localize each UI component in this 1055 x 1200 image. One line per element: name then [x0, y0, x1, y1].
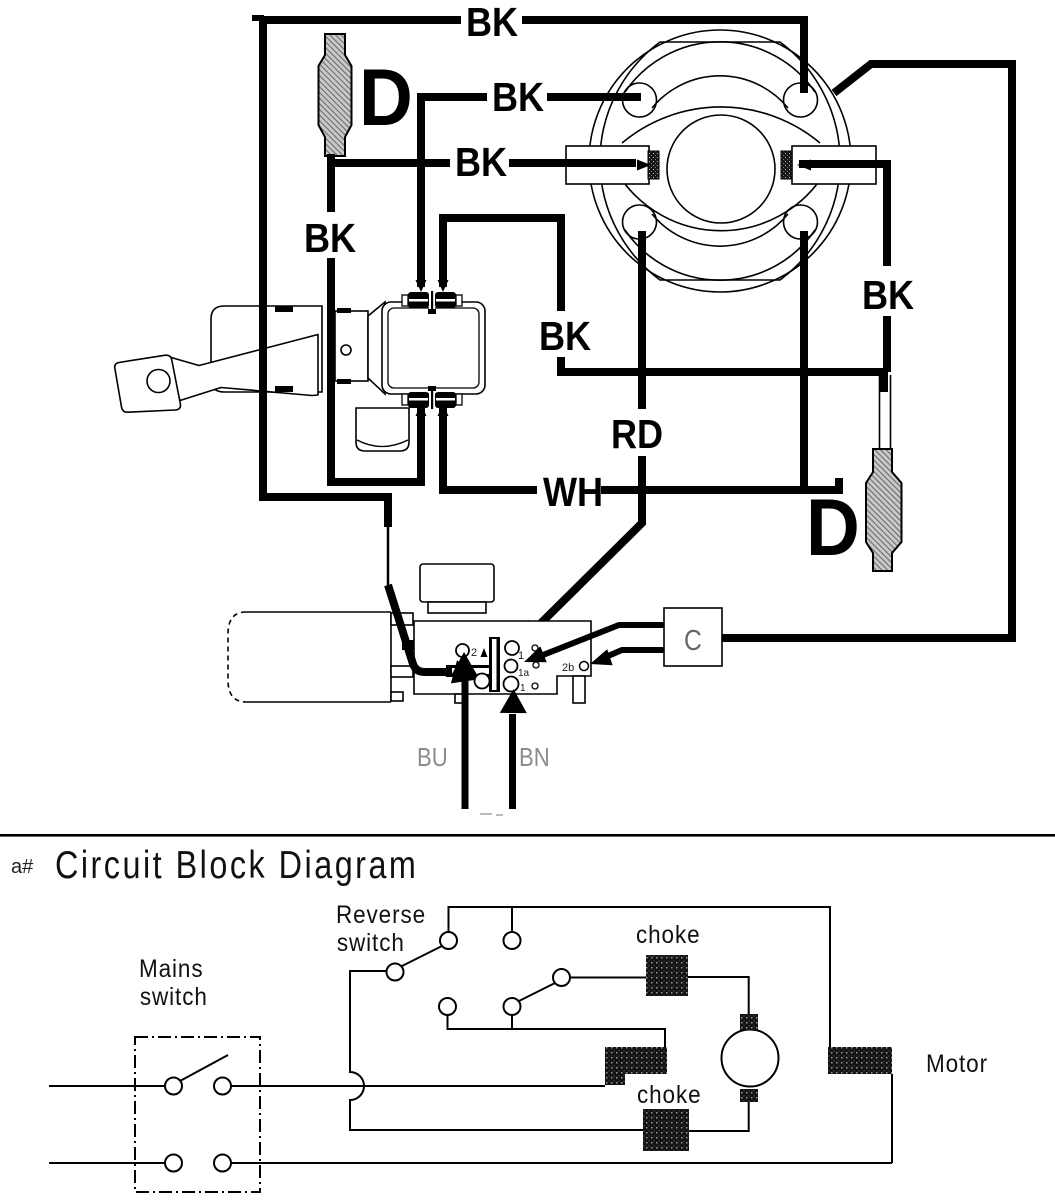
svg-text:Mainsswitch: Mainsswitch — [139, 955, 208, 1011]
svg-text:RD: RD — [611, 412, 663, 458]
svg-text:choke: choke — [636, 921, 701, 949]
trigger top terminal side tabs — [402, 295, 462, 306]
block motor armature — [722, 1030, 779, 1087]
trigger bottom cylinder — [356, 408, 409, 451]
trigger plate hole — [341, 345, 351, 355]
reverse switch contact circles — [387, 932, 571, 1015]
reverse switch lever 1 — [402, 946, 442, 966]
choke D2 (hatched) — [866, 449, 902, 571]
main switch body — [414, 621, 591, 694]
wire trigger top-right terminal to BK center vertical — [443, 218, 884, 392]
svg-text:a#: a# — [11, 856, 34, 878]
wire BK row2 with corner down to trigger — [421, 97, 641, 287]
terminal small circle 1-bottom — [532, 683, 538, 689]
wire mains bottom line — [49, 1162, 892, 1164]
terminal circle 1-bottom — [504, 677, 519, 692]
wire thin section above diagonal — [387, 525, 390, 588]
wire choke D1 vertical to U-turn under trigger — [327, 158, 421, 482]
svg-text:BK: BK — [455, 140, 507, 186]
main switch foot left — [455, 694, 467, 703]
svg-text:1: 1 — [520, 683, 526, 694]
wire reverse top rail — [449, 907, 831, 1047]
svg-text:choke: choke — [637, 1081, 702, 1109]
trigger bottom cylinder bottom arc — [357, 440, 408, 447]
wire RD motor bottom-left down — [536, 231, 642, 628]
wire C lower to terminal 2b — [601, 650, 664, 659]
trigger bottom terminal side tabs — [402, 394, 462, 405]
choke top block — [646, 955, 688, 996]
trigger top terminal block right — [435, 292, 456, 308]
svg-text:BU: BU — [417, 743, 448, 772]
arrow trigger bottom-left terminal — [416, 404, 427, 416]
wire top-right diagonal and right rail — [722, 64, 1012, 638]
wire mains top line — [49, 1085, 605, 1087]
svg-text:BN: BN — [519, 743, 550, 772]
trigger arm finger pad — [115, 355, 181, 412]
trigger top terminal slits — [409, 299, 455, 302]
terminal small circle 2b — [580, 662, 589, 671]
svg-text:D: D — [806, 483, 860, 573]
svg-text:WH: WH — [543, 470, 603, 516]
svg-text:1: 1 — [518, 650, 524, 662]
arrow BU — [451, 652, 478, 676]
block motor bottom brush — [740, 1089, 758, 1102]
wire choke bottom to brush — [689, 1102, 749, 1131]
svg-text:D: D — [359, 53, 413, 143]
wire stator down to bottom line — [891, 1074, 893, 1163]
trigger bottom terminal slits — [409, 398, 455, 401]
arrow into switch terminal left — [451, 660, 481, 683]
arrow into right brush — [797, 160, 811, 171]
main switch knob — [420, 564, 494, 602]
wire stub into motor top-right — [800, 20, 808, 93]
faint mark bottom — [480, 814, 503, 815]
wire reverse bottom rail — [448, 1015, 666, 1047]
motor M1 bottom pole face arc — [622, 180, 820, 231]
main switch foot right — [573, 676, 585, 703]
arrow trigger top-right terminal — [438, 280, 449, 292]
motor M1 bottom field slot — [623, 205, 818, 280]
wire C upper to terminal 1a — [543, 625, 664, 655]
wire choke top to brush — [688, 977, 749, 1014]
terminal circle 2 — [456, 644, 469, 657]
motor M1 right brush holder — [792, 146, 876, 184]
choke D1 (hatched) — [319, 34, 352, 156]
trigger connector plate — [335, 311, 368, 381]
trigger bottom terminal divider — [428, 386, 436, 409]
trigger switch body — [382, 302, 485, 394]
wire WH horizontal — [443, 231, 839, 490]
svg-text:BK: BK — [466, 0, 518, 46]
svg-text:C: C — [684, 624, 702, 656]
motor M1 left brush holder — [566, 146, 649, 184]
choke D1 bottom lead stub — [327, 154, 335, 164]
trigger arm (lever) — [166, 335, 318, 401]
svg-text:2: 2 — [471, 647, 477, 659]
wire BK outer loop (top-left) — [259, 20, 808, 527]
wire trigger to main switch (diagonal) — [388, 585, 452, 672]
trigger top terminal divider — [428, 291, 436, 314]
motor M1 left brush (carbon) — [648, 151, 659, 179]
choke bottom block — [643, 1109, 689, 1151]
reverse switch lever 2 — [519, 983, 555, 1001]
terminal small circle 1a — [533, 662, 539, 668]
arrow trigger bottom-right terminal — [438, 404, 449, 416]
main switch motor-can (dashed) — [228, 612, 391, 702]
arrow C upper — [524, 646, 547, 662]
wire BN up arrow — [509, 714, 516, 809]
label gaps white patches — [322, 10, 896, 499]
terminal small circle 1-top — [532, 645, 538, 651]
capacitor C box — [664, 608, 722, 666]
terminal circle 1-top — [505, 641, 519, 655]
trigger coupling block — [211, 306, 322, 392]
arrow RD into switch terminal 3 — [517, 620, 543, 645]
trigger coupling block tick top — [275, 306, 293, 312]
motor stator block — [828, 1047, 892, 1074]
wire reverse left with hop — [350, 971, 643, 1130]
trigger coupling block tick bottom — [275, 386, 293, 392]
svg-text:Motor: Motor — [926, 1050, 988, 1078]
wire choke D2 thin leads — [880, 375, 891, 449]
mains switch lever — [180, 1055, 228, 1081]
arrow into left brush — [637, 160, 651, 171]
arrow C lower — [590, 649, 613, 665]
block motor top brush — [740, 1014, 758, 1030]
separator line — [0, 834, 1055, 837]
motor M1 top field slot — [623, 42, 818, 117]
main switch contact channel — [446, 637, 500, 692]
trigger bottom terminal block right — [435, 392, 456, 408]
svg-text:2b: 2b — [562, 662, 574, 674]
motor M1 top pole face arc — [622, 107, 820, 143]
svg-text:1a: 1a — [518, 668, 530, 679]
wire right brush to BK vertical — [799, 164, 887, 372]
motor M1 outer housing circle — [589, 30, 851, 292]
svg-text:BK: BK — [862, 273, 914, 319]
trigger connector plate tick — [337, 308, 351, 313]
trigger bottom terminal block left — [408, 392, 429, 408]
main switch link black square — [402, 640, 415, 650]
main switch link tabs — [391, 613, 413, 701]
mains switch dash-dot box — [135, 1037, 260, 1192]
trigger switch body snout — [368, 302, 385, 394]
main switch knob base — [428, 602, 486, 613]
svg-text:BK: BK — [539, 314, 591, 360]
svg-text:BK: BK — [304, 216, 356, 262]
trigger arm pivot hole — [147, 370, 170, 393]
arrow trigger top-left terminal — [416, 280, 427, 292]
choke middle block — [605, 1047, 667, 1085]
svg-text:BK: BK — [492, 75, 544, 121]
wire BU up arrow — [462, 678, 469, 809]
trigger top terminal block left — [408, 292, 429, 308]
terminal circle left-arrow — [475, 674, 490, 689]
trigger switch body inner outline — [388, 308, 479, 388]
mains switch contact circles — [165, 1078, 231, 1172]
motor M1 right brush (carbon) — [781, 151, 792, 179]
svg-text:Circuit Block Diagram: Circuit Block Diagram — [55, 843, 418, 887]
wire BK row3 choke D1 to left brush — [331, 159, 636, 167]
terminal circle 1a — [505, 660, 518, 673]
motor M1 lamination profile — [600, 42, 840, 280]
wire C4 to choke top — [570, 977, 646, 979]
arrow BN — [500, 689, 527, 713]
wire reverse C2 stem — [511, 907, 513, 932]
motor M1 armature circle — [667, 115, 775, 223]
